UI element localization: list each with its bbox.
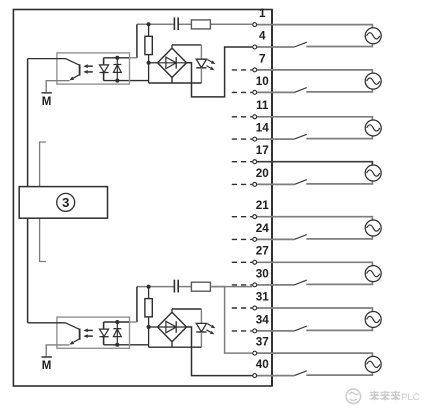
svg-text:17: 17	[256, 144, 269, 157]
svg-text:31: 31	[256, 290, 270, 303]
svg-text:21: 21	[256, 199, 270, 212]
svg-text:30: 30	[256, 267, 270, 280]
svg-text:14: 14	[256, 122, 270, 135]
svg-text:27: 27	[256, 245, 269, 258]
svg-text:3: 3	[62, 195, 69, 210]
svg-text:10: 10	[256, 75, 270, 88]
svg-text:PLC: PLC	[401, 392, 420, 403]
svg-text:1: 1	[259, 7, 266, 20]
svg-text:34: 34	[256, 313, 270, 326]
svg-text:37: 37	[256, 336, 269, 349]
svg-text:24: 24	[256, 222, 270, 235]
svg-text:4: 4	[259, 29, 266, 42]
svg-text:40: 40	[256, 358, 270, 371]
svg-text:M: M	[42, 96, 52, 108]
svg-text:11: 11	[256, 99, 269, 112]
svg-text:7: 7	[259, 52, 266, 65]
svg-text:M: M	[42, 360, 52, 372]
svg-text:20: 20	[256, 167, 270, 180]
